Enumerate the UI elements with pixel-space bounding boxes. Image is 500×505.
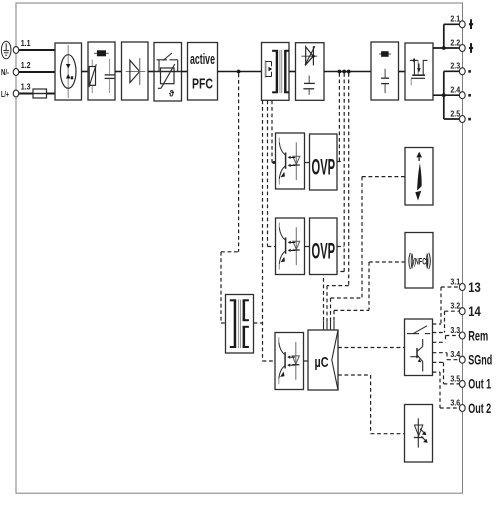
dashed line microcontroller to LED block [338, 375, 405, 434]
label L/+ [1, 89, 9, 99]
wire OK2 to OVP2 [305, 246, 310, 248]
label 3.4 [450, 349, 460, 359]
svg-text:L/+: L/+ [1, 89, 9, 99]
PE ground symbol [1, 41, 11, 59]
dashed PWM control line from PFC node to aux transformer [221, 74, 239, 324]
dashed line signal block to terminal 3.5 [433, 362, 460, 384]
signal arrow indicator block [405, 148, 433, 206]
dashed line microcontroller to signal block [338, 347, 405, 349]
dashed sense line rail node A to OVP1 [338, 73, 340, 162]
label SGnd [468, 352, 492, 368]
dashed line signal block to terminal 3.4 [433, 353, 460, 360]
NFC interface block [405, 233, 433, 289]
dashed stub aux transformer to feedback line 1 [254, 322, 263, 324]
minus polarity mark 2.5 [468, 118, 471, 121]
dashed sense line rail node C [327, 73, 349, 321]
fuse F1 on wire 1.3 [33, 89, 47, 98]
microcontroller uC block [308, 330, 338, 390]
wire [115, 71, 122, 73]
dashed line signal block to terminal 3.1 [433, 287, 460, 324]
terminal 1.1 [13, 47, 19, 54]
optocoupler OK3 [275, 333, 304, 390]
svg-text:1.3: 1.3 [21, 82, 31, 92]
OVP2 block [310, 218, 338, 275]
switching transformer block with MOSFET [262, 43, 290, 101]
svg-text:µC: µC [315, 354, 329, 371]
inrush limiter block (NTC with bypass contact) [154, 43, 182, 102]
wire 1.2 [19, 71, 55, 73]
dashed sense line rail node B [324, 73, 345, 321]
wire [399, 71, 406, 73]
OVP1 block [310, 134, 338, 190]
aux transformer block [226, 295, 254, 354]
input rectifier block [55, 43, 82, 100]
wire [182, 71, 188, 73]
wire to terminal 2.4 with junction [433, 71, 462, 119]
wire OK3 to microcontroller [304, 360, 309, 362]
svg-text:14: 14 [468, 303, 481, 319]
output filter block (fuse, capacitor) [371, 42, 399, 100]
dashed line arrow indicator to microcontroller [331, 177, 406, 321]
dashed feedback line 1 (transformer to optocoupler OK3) [263, 101, 276, 362]
svg-text:Rem: Rem [468, 327, 488, 343]
plus polarity mark 2.2 [469, 43, 473, 53]
svg-text:13: 13 [468, 279, 481, 295]
svg-text:3.3: 3.3 [450, 325, 460, 335]
svg-text:PFC: PFC [192, 76, 213, 93]
terminal 3.2 [459, 308, 465, 315]
terminal 3.6 [459, 405, 465, 412]
label Out 1 [468, 376, 491, 392]
signal relay and transistor block [405, 319, 433, 376]
label 3.3 [450, 325, 460, 335]
svg-text:2.3: 2.3 [450, 61, 460, 71]
label Out 2 [468, 400, 491, 416]
minus polarity mark 2.3 [468, 70, 471, 73]
terminal 2.5 [459, 116, 465, 123]
diode block [122, 42, 149, 100]
svg-text:OVP: OVP [312, 154, 336, 179]
label 2.5 [450, 108, 460, 118]
dashed line NFC to microcontroller [334, 262, 405, 321]
terminal 1.3 [13, 90, 19, 97]
terminal 2.2 [459, 45, 465, 52]
label 3.6 [450, 397, 460, 407]
label Rem [468, 327, 488, 343]
LED indicator block [405, 405, 433, 463]
svg-text:1.2: 1.2 [21, 60, 31, 70]
wire [289, 71, 296, 73]
optocoupler OK1 [276, 133, 305, 189]
svg-text:Out 1: Out 1 [468, 376, 491, 392]
terminal 3.1 [459, 284, 465, 291]
label 2.2 [450, 37, 460, 47]
wire with three junction nodes [324, 70, 371, 74]
svg-text:3.5: 3.5 [450, 373, 460, 383]
dashed feedback line 2 (transformer to optocoupler OK2) [268, 101, 276, 247]
active PFC block [188, 43, 218, 101]
ORing MOSFET block [405, 43, 433, 100]
optocoupler OK2 [276, 218, 305, 275]
dashed line signal block to terminal 3.6 [433, 372, 460, 408]
svg-text:Out 2: Out 2 [468, 400, 491, 416]
svg-text:3.4: 3.4 [450, 349, 460, 359]
dashed stub OVP1 output [337, 161, 343, 163]
output rectifier block [296, 43, 325, 101]
wire to terminal 2.2 with junction [433, 24, 462, 50]
svg-text:ϑ: ϑ [169, 89, 175, 99]
wire 1.3 [19, 93, 55, 95]
svg-text:3.1: 3.1 [450, 276, 460, 286]
label 2.1 [450, 14, 460, 24]
label 1.2 [21, 60, 31, 70]
label 13 [468, 279, 481, 295]
label 1.3 [21, 82, 31, 92]
terminal 2.1 [459, 21, 465, 28]
microcontroller top pins [324, 321, 335, 330]
svg-text:2.5: 2.5 [450, 108, 460, 118]
dashed line signal block to terminal 3.3 [433, 336, 460, 343]
label 14 [468, 303, 481, 319]
plus polarity mark 2.1 [469, 19, 473, 29]
dashed stub OVP2 output [337, 246, 344, 248]
svg-text:(NFC): (NFC) [413, 256, 428, 267]
label 3.1 [450, 276, 460, 286]
svg-text:2.2: 2.2 [450, 37, 460, 47]
terminal 1.2 [13, 69, 19, 76]
svg-text:3.2: 3.2 [450, 301, 460, 311]
wire with junction node [218, 70, 262, 74]
dashed feedback line 3 (transformer to optocoupler OK1) [272, 101, 276, 165]
terminal 3.5 [459, 380, 465, 387]
svg-text:1.1: 1.1 [21, 38, 31, 48]
label 2.4 [450, 85, 460, 95]
label 3.2 [450, 301, 460, 311]
terminal 3.3 [459, 332, 465, 339]
terminal 2.3 [459, 68, 465, 75]
terminal 3.4 [459, 356, 465, 363]
label 3.5 [450, 373, 460, 383]
svg-text:active: active [190, 51, 215, 68]
label 2.3 [450, 61, 460, 71]
svg-text:3.6: 3.6 [450, 397, 460, 407]
label N/- [1, 67, 9, 77]
svg-text:2.1: 2.1 [450, 14, 460, 24]
svg-text:2.4: 2.4 [450, 85, 460, 95]
input filter block (fuse, varistor, capacitor) [88, 42, 115, 100]
wire 1.1 [19, 49, 55, 51]
terminal 2.4 [459, 92, 465, 99]
minus polarity mark 2.4 [468, 94, 471, 97]
dashed line signal block to terminal 3.2 [433, 311, 460, 332]
wire [82, 71, 89, 73]
label 1.1 [21, 38, 31, 48]
wire [148, 71, 154, 73]
svg-text:N/-: N/- [1, 67, 9, 77]
wire OK1 to OVP1 [305, 162, 310, 164]
svg-text:OVP: OVP [312, 239, 336, 264]
svg-text:SGnd: SGnd [468, 352, 492, 368]
